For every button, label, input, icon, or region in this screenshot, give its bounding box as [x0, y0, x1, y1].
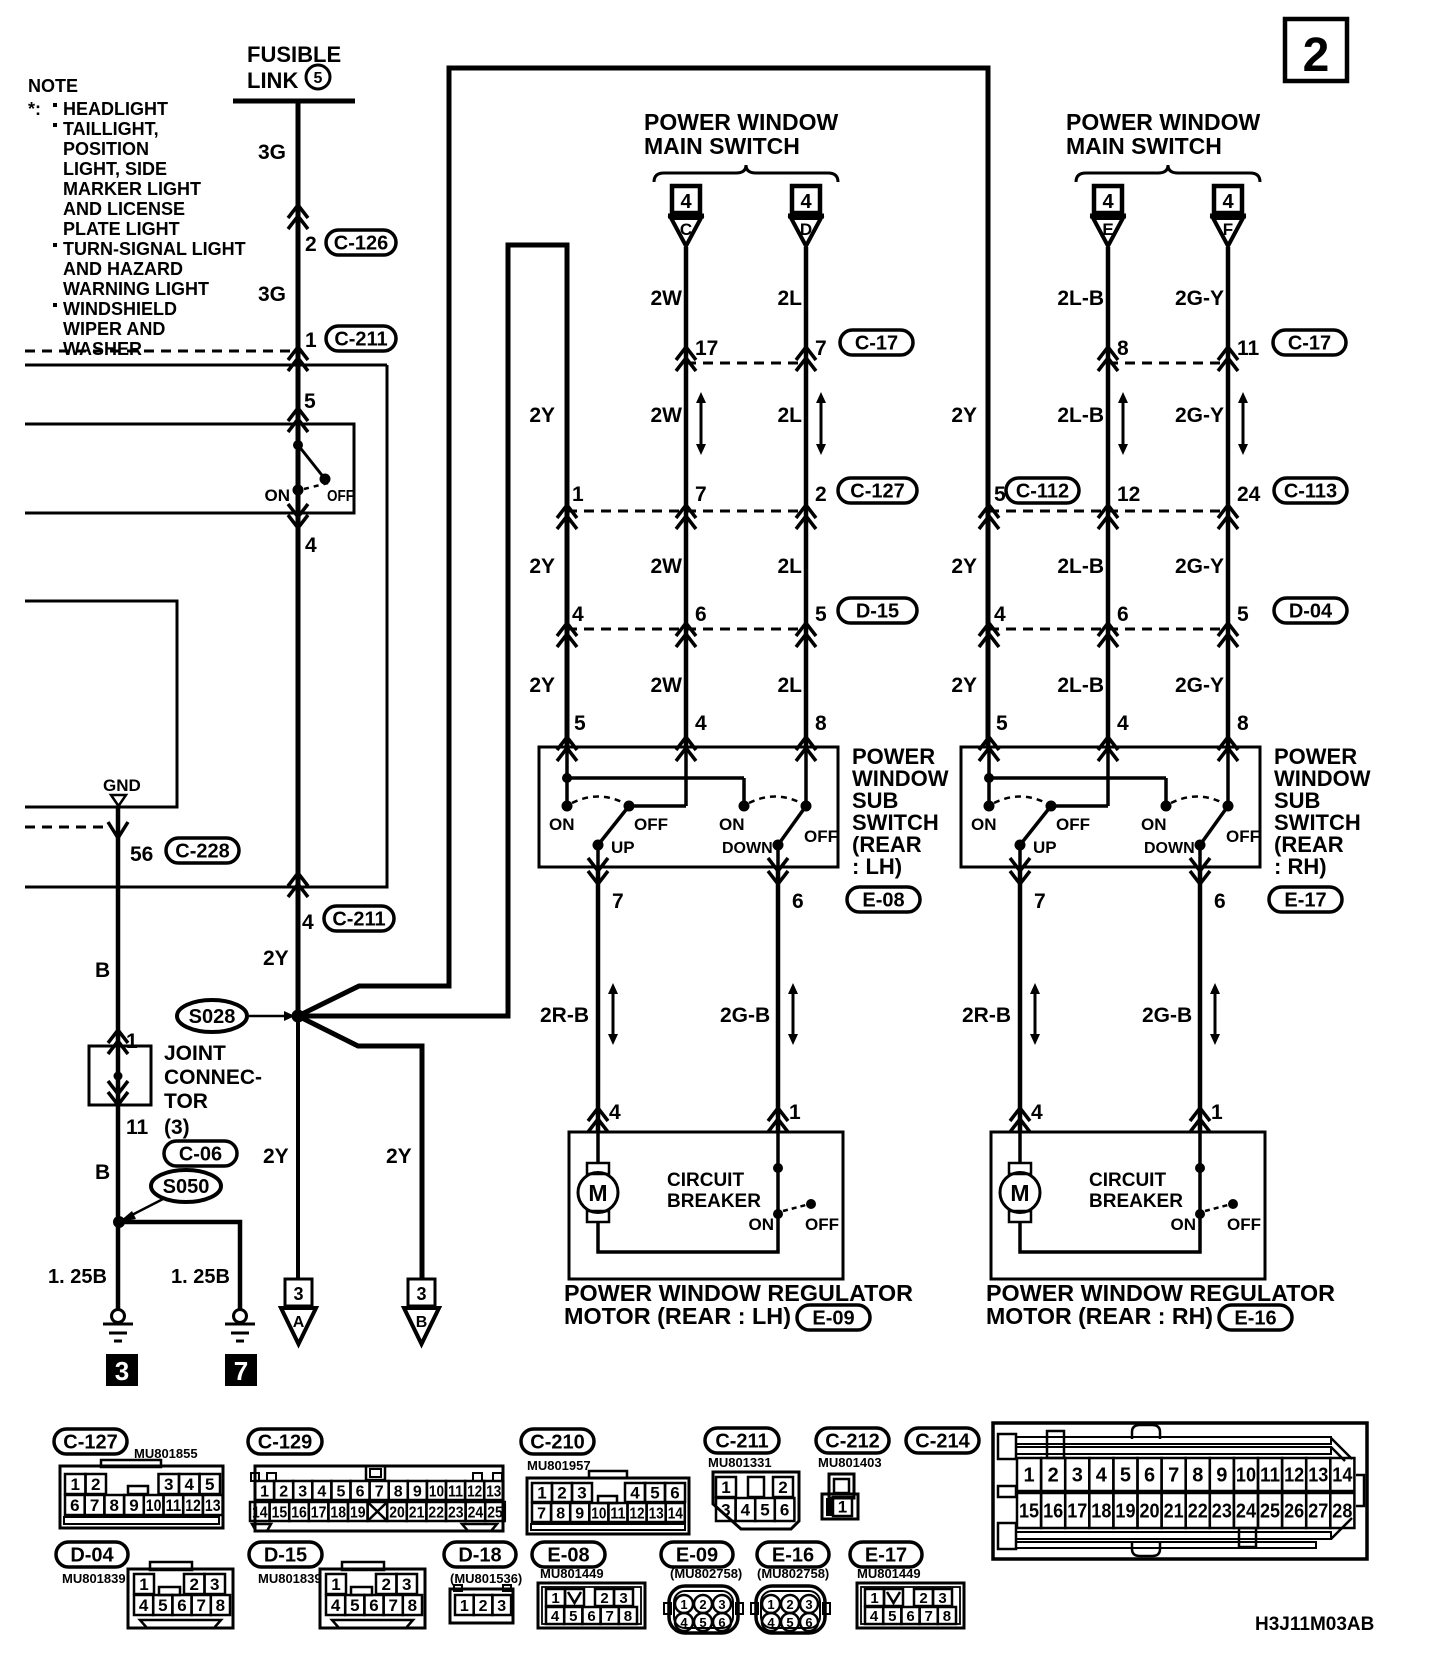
svg-text:2: 2 [919, 1590, 927, 1607]
svg-text:7: 7 [196, 1596, 205, 1615]
svg-text:15: 15 [1019, 1501, 1039, 1523]
connector E-16 capsule [1219, 1305, 1292, 1330]
svg-text:C-212: C-212 [825, 1431, 879, 1453]
updown arrow 2G-B LH [788, 983, 798, 1045]
connector E-17 capsule id [850, 1542, 922, 1567]
connector E-08 part number [540, 1566, 604, 1581]
svg-text:ON: ON [265, 486, 291, 505]
svg-text:C-211: C-211 [334, 329, 387, 351]
svg-text:3: 3 [416, 1284, 426, 1304]
connector D-15 body [320, 1562, 425, 1628]
svg-text:D-18: D-18 [458, 1545, 501, 1567]
svg-text:2: 2 [382, 1575, 391, 1594]
svg-text:13: 13 [486, 1483, 501, 1500]
svg-text:8: 8 [943, 1608, 951, 1625]
connector C-126 capsule [326, 230, 396, 255]
svg-text:1: 1 [870, 1590, 878, 1607]
pin row sub LH [574, 712, 827, 735]
svg-text:UP: UP [1033, 838, 1057, 857]
svg-text:LIGHT, SIDE: LIGHT, SIDE [63, 159, 167, 179]
svg-text:6: 6 [906, 1608, 914, 1625]
svg-text:: LH): : LH) [852, 854, 902, 879]
svg-text:13: 13 [205, 1496, 221, 1515]
chevrons C-17 LH [676, 347, 816, 371]
svg-text:C: C [680, 220, 692, 239]
svg-text:2: 2 [778, 1478, 787, 1497]
wire fusible link feed 3G [296, 101, 301, 1016]
svg-text:MAIN SWITCH: MAIN SWITCH [1066, 133, 1222, 159]
svg-text:22: 22 [428, 1504, 444, 1521]
terminal 4 C [672, 186, 700, 213]
wire label 2G-B RH [1142, 1004, 1192, 1027]
pin 1 label [305, 329, 317, 352]
svg-text:2L-B: 2L-B [1057, 287, 1104, 310]
svg-text:13: 13 [649, 1505, 664, 1522]
svg-text:11: 11 [1260, 1465, 1280, 1487]
connector C-127 capsule [838, 478, 917, 503]
svg-text:2Y: 2Y [529, 404, 555, 427]
svg-text:2: 2 [815, 483, 827, 506]
svg-text:(MU802758): (MU802758) [757, 1566, 829, 1581]
svg-text:4: 4 [331, 1596, 341, 1615]
svg-text:16: 16 [1043, 1501, 1063, 1523]
connector C-212 capsule id [816, 1428, 889, 1453]
sub switch UP labels LH [549, 815, 668, 857]
svg-text:7: 7 [388, 1596, 397, 1615]
svg-text:4: 4 [302, 911, 314, 934]
svg-text:2: 2 [1048, 1465, 1059, 1487]
svg-text:OFF: OFF [1056, 815, 1090, 834]
svg-text:5: 5 [336, 1483, 345, 1500]
svg-text:6: 6 [1117, 603, 1129, 626]
svg-text:5: 5 [205, 1475, 214, 1494]
chevrons sub RH [979, 737, 1238, 761]
svg-text:27: 27 [1308, 1501, 1328, 1523]
lock switch ON label [265, 486, 291, 505]
pin row C-17 LH [695, 337, 827, 360]
svg-text:3: 3 [938, 1590, 946, 1607]
splice S050 node [113, 1216, 125, 1228]
pin labels into motor RH [1031, 1101, 1223, 1124]
svg-text:1: 1 [260, 1483, 269, 1500]
pin labels out sub RH [1034, 890, 1226, 913]
splice S028 pointer [249, 1011, 295, 1021]
connector C-127 capsule id [54, 1429, 127, 1454]
wire label B upper [95, 959, 110, 982]
svg-text:10: 10 [1236, 1465, 1256, 1487]
svg-text:BREAKER: BREAKER [1089, 1191, 1183, 1212]
svg-text:F: F [1223, 220, 1233, 239]
svg-text:1: 1 [838, 1498, 847, 1517]
svg-text:C-126: C-126 [334, 233, 388, 255]
svg-text:TAILLIGHT,: TAILLIGHT, [63, 119, 159, 139]
connector E-17 capsule [1269, 887, 1342, 912]
chevrons out of switch box [288, 873, 308, 897]
svg-text:21: 21 [409, 1504, 425, 1521]
svg-text:WASHER: WASHER [63, 339, 142, 359]
svg-text:ON: ON [971, 815, 997, 834]
svg-text:4: 4 [1117, 712, 1129, 735]
motor caption LH [564, 1280, 913, 1329]
svg-text:17: 17 [695, 337, 718, 360]
svg-text:ON: ON [1141, 815, 1167, 834]
wire label 2Y A [263, 1145, 289, 1168]
svg-text:2G-Y: 2G-Y [1175, 287, 1224, 310]
sub switch internal wiring RH [984, 747, 1228, 806]
svg-text:B: B [95, 959, 110, 982]
connector E-08 capsule [847, 887, 920, 912]
wire 2G-Y RH [1226, 247, 1231, 747]
svg-text:8: 8 [815, 712, 827, 735]
wire labels row3 RH [951, 674, 1224, 697]
connector D-15 capsule id [249, 1542, 322, 1567]
svg-text:1: 1 [551, 1590, 559, 1607]
svg-text:2Y: 2Y [263, 1145, 289, 1168]
pin row sub RH [996, 712, 1249, 735]
pin labels into motor LH [609, 1101, 801, 1124]
svg-text:2Y: 2Y [529, 674, 555, 697]
power window main switch title RH [1066, 109, 1260, 159]
sub switch caption LH [852, 744, 949, 879]
svg-text:11: 11 [166, 1496, 182, 1515]
svg-text:4: 4 [317, 1483, 326, 1500]
wire label 2Y below switch [263, 947, 289, 970]
svg-text:(MU801536): (MU801536) [450, 1571, 522, 1586]
joint connector label [164, 1042, 262, 1113]
circuit breaker RH [1020, 1132, 1261, 1252]
svg-text:26: 26 [1284, 1501, 1304, 1523]
svg-text:(MU802758): (MU802758) [670, 1566, 742, 1581]
svg-text:5: 5 [650, 1484, 659, 1503]
pin row mid RH [994, 483, 1261, 506]
svg-text:2Y: 2Y [263, 947, 289, 970]
circuit breaker LH [598, 1132, 839, 1252]
wire label 2Y B [386, 1145, 412, 1168]
connector C-228 capsule [166, 838, 239, 863]
svg-text:3G: 3G [258, 283, 286, 306]
updown arrow 2W [696, 392, 706, 455]
joint connector node [114, 1072, 123, 1081]
wire label 2G-B LH [720, 1004, 770, 1027]
svg-text:23: 23 [448, 1504, 464, 1521]
svg-text:4: 4 [767, 1615, 775, 1630]
svg-text:2: 2 [479, 1598, 488, 1615]
svg-text:8: 8 [110, 1496, 119, 1515]
connector C-129 body [250, 1466, 505, 1531]
svg-text:5: 5 [314, 70, 323, 87]
wire to arrow A [296, 1016, 300, 1279]
svg-text:2: 2 [786, 1597, 793, 1612]
connector pass C-126 chevrons [288, 205, 308, 229]
svg-text:M: M [588, 1180, 607, 1206]
svg-text:C-112: C-112 [1016, 481, 1069, 503]
svg-text:C-211: C-211 [332, 909, 385, 931]
svg-text:4: 4 [630, 1484, 640, 1503]
updown arrow 2G-Y [1238, 392, 1248, 455]
connector D-04 capsule id [56, 1542, 128, 1567]
svg-text:8: 8 [408, 1596, 417, 1615]
svg-text:2G-Y: 2G-Y [1175, 674, 1224, 697]
svg-text:6: 6 [369, 1596, 378, 1615]
svg-text:C-113: C-113 [1284, 481, 1337, 503]
svg-text:E-16: E-16 [1234, 1308, 1276, 1330]
pin 11 label [126, 1116, 149, 1139]
svg-text:4: 4 [609, 1101, 621, 1124]
pin labels out sub LH [612, 890, 804, 913]
svg-text:9: 9 [575, 1505, 584, 1522]
connector boundary dashed C-228 [25, 826, 107, 829]
svg-text:1: 1 [305, 329, 317, 352]
svg-text:6: 6 [587, 1608, 595, 1625]
svg-text:23: 23 [1212, 1501, 1232, 1523]
svg-text:A: A [293, 1314, 305, 1331]
connector C-112 capsule [1006, 478, 1079, 503]
connector D-15 part number [258, 1571, 322, 1586]
svg-text:3: 3 [718, 1597, 725, 1612]
svg-text:20: 20 [1140, 1501, 1160, 1523]
updown arrow 2R-B LH [608, 983, 618, 1045]
svg-text:2: 2 [699, 1597, 706, 1612]
motor caption RH [986, 1280, 1335, 1329]
svg-text:POWER WINDOW: POWER WINDOW [644, 109, 838, 135]
terminal triangle C [668, 216, 704, 246]
terminal triangle D [788, 216, 824, 246]
wire labels row2 LH [529, 555, 802, 578]
svg-text:5: 5 [574, 712, 586, 735]
svg-text:19: 19 [350, 1504, 366, 1521]
svg-text:JOINT: JOINT [164, 1042, 226, 1065]
svg-text:E-17: E-17 [865, 1545, 907, 1567]
sub switch UP throw LH [562, 797, 635, 868]
svg-text:4: 4 [185, 1475, 195, 1494]
chevrons mid LH [557, 505, 816, 529]
svg-text:NOTE: NOTE [28, 76, 78, 96]
svg-text:1: 1 [680, 1597, 687, 1612]
svg-text:D-15: D-15 [856, 601, 899, 623]
window lock switch box [25, 424, 354, 513]
svg-text:2W: 2W [651, 674, 683, 697]
svg-text:8: 8 [556, 1505, 565, 1522]
updown arrow 2R-B RH [1030, 983, 1040, 1045]
svg-text:1. 25B: 1. 25B [48, 1266, 107, 1288]
sub switch DOWN labels RH [1141, 815, 1260, 857]
connector E-16 part number [757, 1566, 829, 1581]
wire label 3G upper [258, 141, 286, 164]
svg-text:4: 4 [572, 603, 584, 626]
terminal triangle F [1210, 216, 1246, 246]
main switch assembly box right/bottom [25, 365, 387, 887]
svg-text:MOTOR (REAR : LH): MOTOR (REAR : LH) [564, 1303, 791, 1329]
svg-text:*:: *: [28, 99, 41, 119]
svg-text:21: 21 [1164, 1501, 1184, 1523]
svg-text:12: 12 [467, 1483, 482, 1500]
svg-text:2Y: 2Y [951, 674, 977, 697]
svg-text:2Y: 2Y [386, 1145, 412, 1168]
svg-text:2: 2 [190, 1575, 199, 1594]
wire feed to right section 2Y [298, 68, 988, 1016]
ground inner box [25, 601, 177, 807]
svg-text:24: 24 [1236, 1501, 1257, 1523]
svg-text:9: 9 [129, 1496, 138, 1515]
svg-text:ON: ON [749, 1215, 775, 1234]
splice S050 pointer [119, 1198, 165, 1222]
svg-text:MU801839: MU801839 [258, 1571, 322, 1586]
svg-text:9: 9 [413, 1483, 422, 1500]
motor M RH [1000, 1132, 1040, 1222]
svg-text:6: 6 [70, 1496, 79, 1515]
connector C-17 capsule RH [1273, 330, 1346, 355]
pin 1 joint label [126, 1030, 138, 1053]
svg-text:2Y: 2Y [951, 555, 977, 578]
sub switch caption RH [1274, 744, 1371, 879]
svg-text:6: 6 [177, 1596, 186, 1615]
fusible link bus bar [233, 99, 355, 104]
svg-text:3: 3 [298, 1483, 307, 1500]
svg-text:ON: ON [719, 815, 745, 834]
dashed C-17 RH [1108, 362, 1228, 365]
terminal triangle E [1090, 216, 1126, 246]
svg-text:6: 6 [670, 1484, 679, 1503]
svg-text:24: 24 [1237, 483, 1261, 506]
svg-text:6: 6 [718, 1615, 725, 1630]
svg-text:E-16: E-16 [772, 1545, 814, 1567]
svg-text:C-129: C-129 [258, 1432, 312, 1454]
svg-text:POSITION: POSITION [63, 139, 149, 159]
svg-text:4: 4 [680, 191, 692, 213]
svg-text:6: 6 [805, 1615, 812, 1630]
sub switch internal wiring LH [562, 747, 806, 806]
svg-text:1: 1 [572, 483, 584, 506]
svg-text:C-06: C-06 [179, 1144, 222, 1166]
svg-text:3G: 3G [258, 141, 286, 164]
svg-text:MU801957: MU801957 [527, 1458, 591, 1473]
chevrons D RH [979, 623, 1238, 647]
joint connector (3) label [164, 1116, 190, 1139]
svg-text:12: 12 [1117, 483, 1140, 506]
circuit breaker label RH [1089, 1170, 1183, 1212]
connector E-09 body [664, 1586, 743, 1633]
svg-text:GND: GND [103, 776, 141, 795]
svg-text:5: 5 [888, 1608, 896, 1625]
svg-text:7: 7 [90, 1496, 99, 1515]
svg-text:8: 8 [1237, 712, 1249, 735]
svg-text:5: 5 [994, 483, 1006, 506]
pin 56 label [130, 843, 153, 866]
svg-text:24: 24 [468, 1504, 484, 1521]
dashed mid LH [567, 510, 806, 513]
wire 2G-B LH [776, 867, 781, 1132]
wire feed to left 2Y column [298, 245, 567, 1016]
svg-text:1: 1 [71, 1475, 80, 1494]
drawing number [1255, 1614, 1374, 1635]
svg-text:M: M [1010, 1180, 1029, 1206]
svg-text:17: 17 [311, 1504, 327, 1521]
svg-text:LINK: LINK [247, 68, 298, 93]
svg-text:18: 18 [1091, 1501, 1111, 1523]
chevrons into lock switch [288, 408, 308, 432]
svg-text:CIRCUIT: CIRCUIT [1089, 1170, 1166, 1191]
wire label B lower [95, 1161, 110, 1184]
svg-text:11: 11 [448, 1483, 463, 1500]
svg-text:MU801449: MU801449 [857, 1566, 921, 1581]
svg-text:2R-B: 2R-B [540, 1004, 589, 1027]
connector C-210 capsule id [521, 1429, 594, 1454]
svg-text:AND HAZARD: AND HAZARD [63, 259, 183, 279]
connector D-04 body [128, 1562, 233, 1628]
wire 2L-B RH [1106, 247, 1111, 747]
wire labels row1 RH [951, 404, 1224, 427]
svg-text:5: 5 [1120, 1465, 1131, 1487]
pin 4 label [305, 534, 317, 557]
connector D-15 capsule [838, 598, 917, 623]
wire 2G-B RH [1198, 867, 1203, 1132]
svg-text:4: 4 [800, 191, 812, 213]
updown arrow 2G-B RH [1210, 983, 1220, 1045]
svg-text:E-08: E-08 [547, 1545, 589, 1567]
svg-text:S028: S028 [189, 1006, 236, 1028]
svg-text:MU801449: MU801449 [540, 1566, 604, 1581]
svg-text:10: 10 [591, 1505, 606, 1522]
svg-text:MAIN SWITCH: MAIN SWITCH [644, 133, 800, 159]
svg-text:6: 6 [1214, 890, 1226, 913]
svg-text:MARKER LIGHT: MARKER LIGHT [63, 179, 201, 199]
svg-text:D-04: D-04 [1289, 601, 1333, 623]
svg-text:2: 2 [279, 1483, 288, 1500]
svg-text:C-127: C-127 [63, 1432, 117, 1454]
connector C-212 part number [818, 1455, 882, 1470]
connector C-210 body [527, 1471, 689, 1534]
svg-text:7: 7 [612, 890, 624, 913]
svg-text:2: 2 [557, 1484, 566, 1503]
svg-text:E: E [1102, 220, 1113, 239]
connector C-214 capsule id [906, 1428, 979, 1453]
svg-text:22: 22 [1188, 1501, 1208, 1523]
main switch assembly box top edge [25, 364, 387, 367]
svg-text:7: 7 [1168, 1465, 1179, 1487]
svg-text:8: 8 [1117, 337, 1129, 360]
power window regulator motor box RH [991, 1132, 1265, 1279]
connector C-212 body [822, 1474, 858, 1519]
svg-text:TOR: TOR [164, 1090, 208, 1113]
connector E-16 capsule id [757, 1542, 829, 1567]
svg-text:14: 14 [668, 1505, 683, 1522]
lock switch pivot [293, 440, 331, 485]
svg-text:MOTOR (REAR : RH): MOTOR (REAR : RH) [986, 1303, 1213, 1329]
svg-text:2: 2 [600, 1590, 608, 1607]
svg-text:7: 7 [234, 1356, 248, 1386]
svg-text:14: 14 [1332, 1465, 1353, 1487]
connector D-04 part number [62, 1571, 126, 1586]
svg-text:7: 7 [606, 1608, 614, 1625]
wire label 3G lower [258, 283, 286, 306]
svg-text:CONNEC-: CONNEC- [164, 1066, 262, 1089]
svg-text:16: 16 [291, 1504, 307, 1521]
connector C-127 part number [134, 1446, 198, 1461]
page marker 2 [1285, 19, 1347, 82]
wire label 1.25B left [48, 1266, 107, 1288]
connector C-211 body [713, 1472, 799, 1529]
terminal 4 D [792, 186, 820, 213]
svg-text:E-09: E-09 [812, 1308, 854, 1330]
svg-text:B: B [95, 1161, 110, 1184]
svg-text:11: 11 [1237, 337, 1260, 360]
connector C-214 body 28pin [993, 1423, 1367, 1559]
svg-text:2W: 2W [651, 404, 683, 427]
svg-text:2G-B: 2G-B [1142, 1004, 1192, 1027]
svg-text:5: 5 [1237, 603, 1249, 626]
svg-text:1: 1 [331, 1575, 340, 1594]
svg-text:6: 6 [1144, 1465, 1155, 1487]
